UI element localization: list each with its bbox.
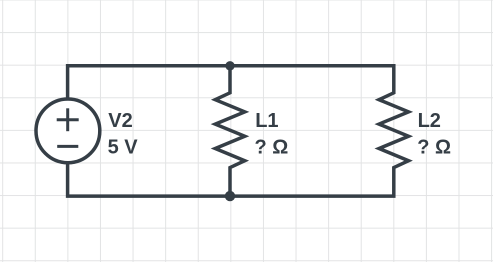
svg-text:L1: L1 xyxy=(255,110,278,132)
svg-text:V2: V2 xyxy=(108,110,132,132)
svg-text:5 V: 5 V xyxy=(108,136,139,158)
svg-text:? Ω: ? Ω xyxy=(417,136,451,158)
svg-text:? Ω: ? Ω xyxy=(255,136,289,158)
svg-text:L2: L2 xyxy=(418,110,441,132)
